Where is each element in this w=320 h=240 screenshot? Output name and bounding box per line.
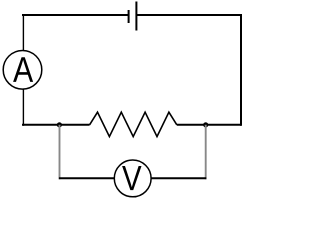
ammeter U1 label A (13, 57, 33, 82)
wire vertical below ammeter (22, 89, 24, 126)
wire top horizontal left segment (corner to battery) (22, 14, 129, 16)
voltmeter U2 circle (114, 160, 151, 197)
wire bottom left horizontal (59, 177, 115, 179)
voltmeter U2 label V (122, 166, 141, 190)
wire resistor row left lead (22, 124, 90, 126)
battery cell B1 long plate (positive) (135, 2, 137, 31)
wire left junction drop (59, 125, 61, 180)
wire right junction drop (205, 125, 207, 180)
resistor R1 zigzag (90, 112, 177, 136)
node junction right (203, 122, 208, 127)
wire vertical above ammeter (22, 15, 24, 51)
wire bottom right horizontal (151, 177, 207, 179)
wire right side vertical (240, 14, 242, 126)
wire resistor right lead (177, 124, 241, 126)
ammeter U1 circle (3, 51, 42, 90)
wire top horizontal right segment (battery to corner) (136, 14, 242, 16)
node junction left (57, 122, 62, 127)
battery cell B1 short plate (negative) (128, 10, 130, 23)
